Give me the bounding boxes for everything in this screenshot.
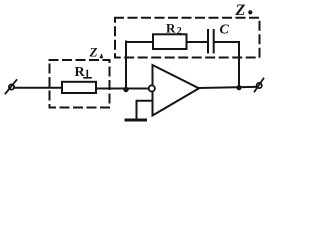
node B output junction dot (236, 85, 241, 90)
non-inverting input wire (137, 101, 153, 119)
svg-text:Z: Z (235, 2, 246, 19)
op-amp U1 (153, 65, 200, 116)
wire node A to R2 (126, 41, 153, 43)
capacitor C (208, 30, 214, 53)
resistor R1 (62, 82, 96, 93)
label R1 (75, 65, 92, 80)
feedback wire down to output node (238, 42, 240, 88)
input terminal (6, 80, 17, 94)
svg-text:Z: Z (89, 45, 98, 60)
output terminal (255, 79, 264, 92)
inverting input bubble (149, 85, 155, 91)
impedance box Z0 (dashed) (115, 18, 260, 58)
output wire (199, 87, 257, 88)
ground (126, 119, 146, 122)
svg-text:C: C (220, 23, 230, 38)
wire input to R1 (14, 87, 62, 89)
label Z1 (89, 45, 104, 60)
wire R2 to C (187, 41, 208, 43)
label Z0 (235, 2, 253, 19)
svg-text:R: R (166, 21, 176, 36)
wire C to output corner (215, 41, 239, 43)
svg-text:2: 2 (177, 26, 182, 37)
node A junction dot (123, 87, 128, 92)
resistor R2 (153, 34, 187, 49)
wire R1 to node A (96, 88, 149, 90)
label R2 (166, 21, 182, 38)
feedback wire up from node A (125, 42, 127, 90)
impedance box Z1 (dashed) (50, 60, 110, 108)
